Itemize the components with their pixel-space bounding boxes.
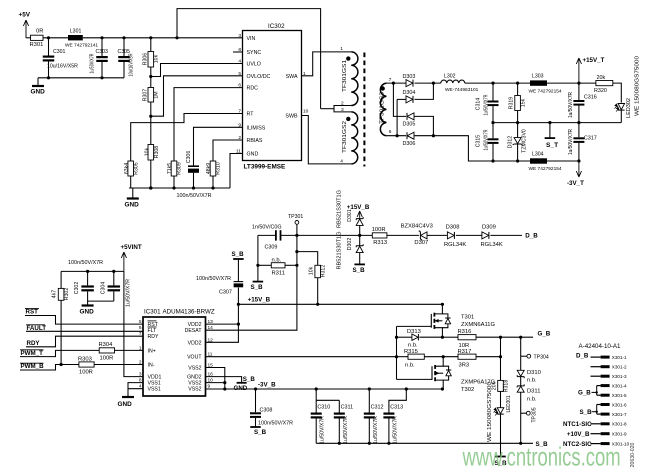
svg-text:TF301GS2: TF301GS2 [342,121,348,153]
wire C309 left leg to S_B [257,235,259,281]
ground under IC301 [128,383,143,389]
svg-text:R313: R313 [373,240,387,246]
svg-text:VDD2: VDD2 [188,340,202,346]
svg-text:D309: D309 [482,224,496,230]
svg-text:RST: RST [26,309,39,316]
svg-text:1u/50V/X7R: 1u/50V/X7R [568,92,574,118]
svg-text:n.b.: n.b. [272,257,282,263]
junction [395,355,398,358]
junction [149,186,152,189]
resistor R309 [171,161,177,176]
pin X301-5 [601,394,610,397]
resistor R302 [60,271,62,288]
svg-text:WE 742792154: WE 742792154 [529,166,562,172]
wire -3V rail [433,136,530,161]
svg-text:RB521S30T1G: RB521S30T1G [336,232,342,270]
svg-text:5: 5 [238,71,241,77]
svg-text:S_T: S_T [546,142,558,149]
pin X301-3 [601,375,610,378]
wire G_B branch vertical [500,337,502,380]
svg-text:1u/50V/X7R: 1u/50V/X7R [483,94,489,115]
wire [115,349,144,351]
junction [441,336,444,339]
junction [237,303,240,306]
svg-text:D308: D308 [446,224,460,230]
capacitor C315 [488,138,499,140]
svg-text:C302: C302 [74,282,80,295]
svg-text:S_B: S_B [580,409,593,416]
transformer TF301 primary winding 1 (TF301GS1) [351,52,358,106]
wire UVLO tap [151,64,243,77]
junction [316,303,319,306]
svg-text:D_B: D_B [525,233,538,240]
svg-text:SWA: SWA [286,74,298,80]
svg-text:IC302: IC302 [268,23,285,30]
svg-text:D302: D302 [347,238,353,251]
svg-text:C315: C315 [475,135,481,148]
svg-text:3: 3 [341,107,344,113]
svg-text:TP304: TP304 [534,355,549,361]
svg-text:10: 10 [303,109,309,115]
svg-text:L304: L304 [532,151,544,157]
svg-text:GND: GND [80,309,95,316]
wire -3V_B rail [206,388,443,390]
junction [295,234,298,237]
svg-text:SWB: SWB [285,114,298,120]
wire +15V rail [465,82,530,84]
svg-text:WE 742792141: WE 742792141 [65,42,98,48]
capacitor C301 [48,38,50,56]
svg-text:R316: R316 [458,329,472,335]
svg-text:4: 4 [340,158,343,164]
svg-text:R308: R308 [154,146,160,159]
junction [86,270,89,273]
pin X301-6 [601,403,610,406]
junction [149,115,152,118]
svg-text:RDY: RDY [27,340,41,347]
junction [47,76,50,79]
wire [83,37,243,39]
wire gate bus [396,326,398,379]
wire to top rail [177,9,321,109]
svg-text:C312: C312 [371,405,384,411]
svg-text:n.b.: n.b. [527,377,537,383]
svg-text:R315: R315 [404,349,418,355]
junction [254,387,257,390]
wire secondary pin7 [386,82,406,84]
net S_T [549,123,551,138]
diode D308 [447,232,454,239]
junction [499,336,502,339]
junction [519,336,522,339]
resistor R306 [150,38,152,52]
svg-text:R301: R301 [30,42,44,48]
junction [149,36,152,39]
svg-text:C307: C307 [219,290,232,296]
resistor R316 [458,335,476,340]
junction [223,387,226,390]
wire [173,176,175,188]
svg-text:3R3: 3R3 [459,362,470,368]
svg-text:R310: R310 [216,162,222,175]
body diode of T301 [442,314,448,318]
wire pin2 stub [591,366,601,368]
junction [516,121,519,124]
svg-text:RGL34K: RGL34K [444,242,466,248]
svg-text:L301: L301 [70,28,82,34]
svg-text:VSS2: VSS2 [188,381,201,387]
svg-text:1: 1 [139,345,142,351]
wire [150,67,152,88]
junction [396,134,399,137]
transformer TF301 primary winding 2 (TF301GS2) [351,112,358,164]
wire [88,300,114,302]
resistor R317 [458,354,476,359]
svg-text:100R: 100R [372,227,386,233]
svg-text:TF301GS3: TF301GS3 [379,92,385,124]
svg-text:VIN: VIN [247,36,256,42]
svg-text:X301-4: X301-4 [612,383,627,388]
svg-text:R311: R311 [272,270,285,276]
wire +5VINT rail [61,270,124,272]
svg-text:100n/50V/X7R: 100n/50V/X7R [177,193,212,199]
wire [415,82,441,84]
junction [516,159,519,162]
junction [516,82,519,85]
wire bracket C311 [316,399,339,401]
svg-text:C313: C313 [390,405,403,411]
wire [150,102,152,145]
capacitor C303 [101,38,103,56]
svg-text:10k: 10k [153,54,159,63]
diode D313 (n.b.) [397,336,412,338]
junction [295,250,298,253]
wire GND pin of IC302 [230,154,243,189]
svg-text:+15V_B: +15V_B [248,296,271,303]
wire [94,364,143,366]
svg-text:C304: C304 [100,282,106,295]
net S_B [354,263,365,265]
pin X301-7 [601,413,610,416]
junction [315,387,318,390]
test point TP305 [521,412,527,414]
svg-text:GND: GND [247,152,259,158]
resistor R318 [498,380,504,391]
junction [100,76,103,79]
svg-text:10k: 10k [308,266,314,275]
svg-text:R302: R302 [64,288,70,301]
inductor L303 [530,80,547,85]
junction [577,121,580,124]
svg-text:ADUM4136-BRWZ: ADUM4136-BRWZ [163,309,215,316]
svg-text:1u/50V/X7R: 1u/50V/X7R [373,416,379,444]
wire DESAT [206,235,297,330]
wire [613,83,622,103]
svg-text:X301-8: X301-8 [612,422,627,427]
net S_B [253,281,264,283]
junction [192,186,195,189]
resistor R305 [128,161,134,176]
junction [441,303,444,306]
wire RDC [174,88,243,161]
junction [100,36,103,39]
wire [130,176,132,188]
LED302 [618,104,625,110]
svg-text:R306: R306 [142,53,148,66]
capacitor C302 [87,271,89,285]
capacitor C311 [338,400,340,412]
svg-text:0R: 0R [36,29,43,35]
svg-text:C316: C316 [584,95,597,101]
svg-text:TZMC3V0: TZMC3V0 [521,129,527,153]
svg-text:WE 150080GS75000: WE 150080GS75000 [634,56,640,116]
svg-text:X301-3: X301-3 [612,374,627,379]
inductor L301 [68,35,83,40]
junction [405,387,408,390]
svg-text:RDC: RDC [247,86,259,92]
svg-text:n.b.: n.b. [527,396,537,402]
LED301 [500,391,502,407]
wire [20,350,99,356]
svg-text:D311: D311 [527,388,540,394]
wire [25,316,143,325]
svg-text:71k5: 71k5 [167,163,173,174]
junction [172,186,175,189]
transistor T302 ZXMP6A17G [397,378,433,380]
svg-text:48k9: 48k9 [206,163,212,174]
junction [47,36,50,39]
ground [87,301,89,305]
pin X301-9 [601,432,610,435]
resistor R307 [148,88,154,103]
svg-text:3: 3 [238,33,241,39]
svg-text:L302: L302 [444,74,456,80]
svg-text:5: 5 [139,319,142,325]
svg-text:R309: R309 [177,162,183,175]
svg-text:OVLO/DC: OVLO/DC [247,74,271,80]
wire [415,116,434,135]
svg-text:S_B: S_B [232,251,245,258]
svg-text:3: 3 [139,372,142,378]
svg-text:6: 6 [238,83,241,89]
capacitor C307 [237,288,239,305]
svg-text:RDY: RDY [148,334,159,340]
wire [520,377,522,386]
svg-text:D310: D310 [527,370,541,376]
svg-text:S_B: S_B [251,284,264,291]
svg-text:2: 2 [238,135,241,141]
wire [520,392,522,443]
svg-text:C310: C310 [317,405,330,411]
inductor L304 [530,158,547,163]
svg-text:C306: C306 [186,151,192,164]
junction [60,363,63,366]
wire SYNC stub [233,51,243,53]
junction [112,270,115,273]
net GND2 S_B [206,377,242,383]
svg-text:1n/50V/C0G: 1n/50V/C0G [252,225,282,231]
power symbol +15V_T [576,58,581,83]
wire [415,83,434,99]
wire S_B bottom rail [316,442,533,444]
junction [149,75,152,78]
svg-text:D313: D313 [407,329,421,335]
svg-text:UVLO: UVLO [247,62,261,68]
svg-text:T302: T302 [461,387,474,393]
inductor L302 [441,80,465,83]
wire [415,135,434,137]
svg-text:GND: GND [118,401,133,408]
svg-text:4k7: 4k7 [52,290,58,298]
transformer core [363,53,365,167]
svg-text:R312: R312 [321,265,327,278]
svg-text:1u/50V/X7R: 1u/50V/X7R [126,279,132,307]
svg-text:11: 11 [236,149,241,155]
junction [368,442,371,445]
svg-text:L303: L303 [532,74,544,80]
wire RBIAS [213,140,243,161]
svg-text:C314: C314 [475,98,481,111]
svg-text:100n/50V/X7R: 100n/50V/X7R [196,276,231,282]
resistor R301 [31,35,44,40]
junction [577,82,580,85]
junction [519,442,522,445]
svg-text:www.cntronics.com: www.cntronics.com [462,442,621,471]
diode D307 zener BZX84C4V3 [421,232,427,239]
net S_B [233,258,244,260]
wire DESAT measure line [258,234,276,236]
svg-text:RB521S30T1G: RB521S30T1G [336,190,342,228]
pin X301-8 [601,422,610,425]
svg-text:SYNC: SYNC [247,50,262,56]
svg-text:1u/50V/X7R: 1u/50V/X7R [568,129,574,155]
wire mid rail S_T [493,122,621,124]
svg-text:10u/16V/X5R: 10u/16V/X5R [129,53,135,76]
svg-text:R307: R307 [142,89,148,102]
capacitor C312 [368,389,370,413]
resistor R303 [79,362,94,367]
svg-text:D305: D305 [403,122,416,128]
svg-text:n.b.: n.b. [408,342,418,348]
test point TP304 [521,355,527,357]
ground [37,78,39,86]
junction [432,134,435,137]
svg-text:R319: R319 [508,97,514,110]
pin X301-10 [601,442,610,445]
svg-text:S_B: S_B [243,376,256,383]
svg-text:TP301: TP301 [288,214,303,220]
svg-text:D304: D304 [403,90,416,96]
svg-text:PWM_T: PWM_T [21,350,44,357]
wire [26,37,31,39]
svg-text:8: 8 [238,47,241,53]
junction [499,355,502,358]
resistor R310 [210,161,216,176]
wire [26,336,143,347]
svg-text:ZXMN6A11G: ZXMN6A11G [461,322,496,328]
svg-text:FAULT: FAULT [27,325,47,332]
junction [358,234,361,237]
svg-text:D301: D301 [347,209,353,222]
junction [441,387,444,390]
svg-text:LED301: LED301 [506,395,512,412]
junction [175,36,178,39]
junction [223,381,226,384]
wire SWA [302,52,352,76]
capacitor C317 [578,123,580,138]
svg-text:IN-: IN- [148,363,155,369]
svg-text:-3V_B: -3V_B [258,381,276,388]
wire RT [131,114,243,162]
wire [26,330,143,332]
svg-text:R305: R305 [133,162,139,175]
wire VDD2 pins to +15V_B [206,323,239,325]
svg-text:10k: 10k [144,147,150,156]
wire [38,77,124,79]
svg-text:WE 742792154: WE 742792154 [529,88,562,94]
resistor R311 (n.b.) [258,264,271,266]
pin X301-2 [601,365,610,368]
op-amp IC302 LT3999-EMSE [243,31,302,161]
wire VSS2 bracket [206,368,225,390]
wire pin3 stub [591,375,601,377]
diode D306 [407,132,414,139]
wire OVLO tap [151,76,243,116]
svg-text:1u/50V/X7R: 1u/50V/X7R [483,129,489,150]
diode D303 [406,80,413,87]
svg-text:D312: D312 [507,136,513,149]
pin X301-1 [601,356,610,359]
capacitor C310 [315,389,317,413]
svg-text:G_B: G_B [538,330,551,337]
svg-text:1u/50V/X7R: 1u/50V/X7R [392,416,398,444]
svg-text:LED302: LED302 [626,98,632,118]
diode D311 (n.b.) [517,386,524,392]
svg-text:8: 8 [139,378,142,384]
body diode of T302 [443,366,448,370]
svg-text:R304: R304 [99,342,114,348]
svg-text:7: 7 [389,77,392,83]
svg-text:15k: 15k [520,98,526,107]
wire D304 branch [397,98,406,100]
svg-text:C317: C317 [584,136,597,142]
resistor R315 (n.b.) [397,356,409,358]
svg-text:X301-2: X301-2 [612,365,627,370]
capacitor C316 [578,83,580,100]
wire [20,365,79,371]
svg-text:X301-9: X301-9 [612,432,627,437]
junction [395,336,398,339]
wire ILIM/SS [194,127,243,165]
junction [368,387,371,390]
svg-text:2: 2 [139,360,142,366]
svg-text:S_B: S_B [254,429,267,436]
svg-text:D303: D303 [403,74,416,80]
wire +15V_B rail [238,303,442,305]
svg-text:X301-6: X301-6 [612,402,627,407]
resistor R308 [148,145,154,161]
wire ground rail [129,187,230,189]
svg-text:C301: C301 [53,49,66,55]
junction [491,82,494,85]
diode D309 [482,232,489,239]
svg-text:R320: R320 [594,88,607,94]
svg-text:GND: GND [31,89,46,96]
junction [491,121,494,124]
wire SWB [302,116,352,164]
svg-text:100R: 100R [100,356,114,362]
svg-text:BZX84C4V3: BZX84C4V3 [401,224,433,230]
